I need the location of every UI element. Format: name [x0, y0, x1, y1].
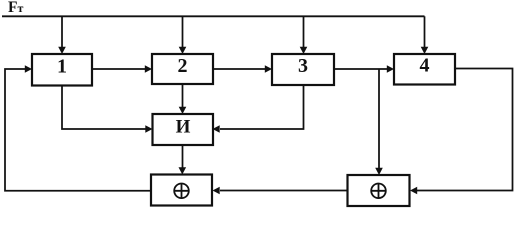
wire drop from rail into register 2 — [179, 16, 187, 54]
AND gate "И" — [153, 114, 214, 145]
wire drop from rail into register 1 — [58, 16, 66, 54]
svg-text:И: И — [176, 117, 191, 138]
wire top clock rail — [2, 15, 425, 17]
wire register 3 output to register 4 input — [334, 65, 394, 73]
register stage 2 — [152, 54, 213, 84]
node Fт (clock input label) — [8, 0, 23, 16]
wire register 2 tap to AND gate top input — [179, 84, 187, 114]
wire register 2 output to register 3 input — [213, 65, 272, 73]
wire left XOR adder output feedback to register 1 input — [5, 65, 151, 191]
left XOR adder — [151, 175, 212, 206]
wire register 1 output to register 2 input — [92, 65, 152, 73]
wire drop from rail end into register 4 — [421, 16, 429, 54]
wire junction drop between registers 3 and 4 down to right XOR adder — [375, 69, 383, 175]
wire AND gate output to left XOR adder — [179, 145, 187, 175]
svg-text:4: 4 — [420, 55, 430, 77]
wire right XOR adder output to left XOR adder input — [213, 187, 348, 195]
svg-text:1: 1 — [57, 56, 67, 78]
svg-text:Fт: Fт — [8, 0, 23, 16]
svg-text:2: 2 — [178, 55, 188, 77]
wire drop from rail into register 3 — [300, 16, 308, 54]
svg-text:3: 3 — [298, 55, 308, 77]
register stage 3 — [272, 54, 334, 85]
register stage 4 — [394, 54, 455, 85]
wire register 3 tap to AND gate right input — [213, 86, 304, 133]
wire register 1 tap to AND gate left input — [62, 86, 153, 133]
wire register 4 output feedback to right XOR adder — [410, 69, 513, 195]
right XOR adder — [348, 175, 410, 206]
register stage 1 — [32, 54, 92, 86]
